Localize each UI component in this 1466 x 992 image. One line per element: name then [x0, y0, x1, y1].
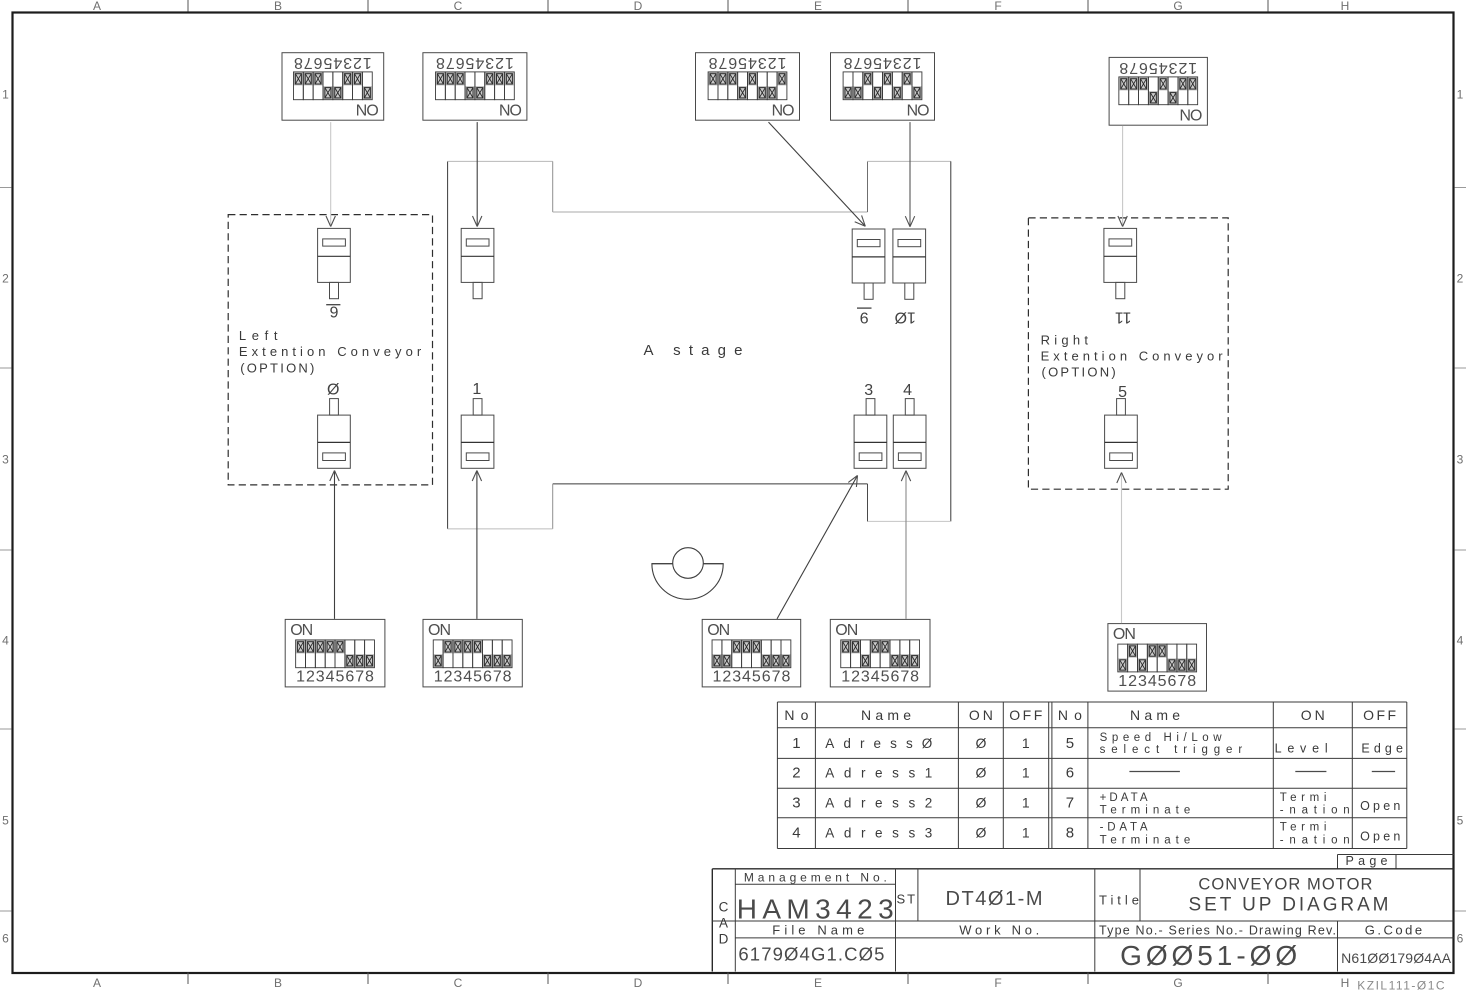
svg-text:2: 2: [2, 272, 9, 286]
label motor 6 (rotated, underlined): [326, 302, 340, 319]
svg-text:8: 8: [843, 54, 852, 71]
dip switch block for motor 0: [285, 619, 385, 687]
svg-text:2: 2: [1128, 673, 1137, 690]
svg-text:4: 4: [1148, 673, 1157, 690]
svg-text:ON: ON: [835, 622, 858, 639]
svg-text:3: 3: [864, 382, 873, 399]
svg-text:6: 6: [2, 932, 9, 946]
svg-text:6: 6: [483, 669, 492, 686]
dip switch block for motor 3: [702, 619, 801, 687]
svg-text:5: 5: [336, 669, 345, 686]
svg-text:2: 2: [851, 669, 860, 686]
svg-text:Title: Title: [1099, 893, 1139, 908]
svg-text:N61ØØ179Ø4AA: N61ØØ179Ø4AA: [1341, 950, 1452, 966]
dip switch block for motor 4: [830, 619, 930, 687]
svg-text:5: 5: [323, 54, 332, 71]
svg-text:H: H: [1341, 976, 1350, 990]
svg-text:1: 1: [363, 54, 372, 71]
svg-text:6: 6: [1457, 932, 1464, 946]
svg-text:GØØ51-ØØ: GØØ51-ØØ: [1120, 940, 1297, 971]
svg-text:3: 3: [2, 453, 9, 467]
svg-text:Ø: Ø: [975, 735, 986, 751]
dip switch settings table: [777, 702, 1406, 849]
svg-text:OFF: OFF: [1009, 707, 1042, 723]
svg-text:ON: ON: [428, 622, 451, 639]
svg-text:3: 3: [893, 54, 902, 71]
dip switch block for motor 9 (rotated 180): [696, 53, 800, 121]
title block: ST / DT401-M: [897, 888, 1043, 910]
Right extension conveyor option box (dashed): [1028, 218, 1228, 489]
svg-text:G: G: [1173, 976, 1182, 990]
title block: [712, 869, 1454, 972]
svg-text:D: D: [634, 0, 643, 13]
motor M9 (A stage, top right): [852, 229, 885, 299]
svg-text:D: D: [634, 976, 643, 990]
svg-text:8: 8: [708, 54, 717, 71]
A stage board outline: [448, 161, 951, 529]
svg-text:1: 1: [505, 54, 514, 71]
svg-text:3: 3: [861, 669, 870, 686]
svg-text:1: 1: [792, 735, 800, 752]
motor M6 (left extension, top): [318, 228, 351, 298]
svg-text:7: 7: [446, 54, 455, 71]
svg-text:Terminate: Terminate: [1100, 835, 1191, 847]
svg-text:(OPTION): (OPTION): [240, 361, 314, 376]
svg-text:2: 2: [792, 765, 800, 782]
svg-text:7: 7: [718, 54, 727, 71]
dip switch block for motor 1: [423, 619, 522, 687]
svg-text:KZIL111-Ø1C: KZIL111-Ø1C: [1357, 979, 1445, 992]
wire: dip sw to motor 4: [901, 471, 910, 619]
svg-text:3: 3: [485, 54, 494, 71]
svg-text:4: 4: [333, 54, 342, 71]
svg-text:8: 8: [436, 54, 445, 71]
svg-text:4: 4: [2, 634, 9, 648]
svg-text:4: 4: [883, 54, 892, 71]
svg-text:6: 6: [1066, 765, 1074, 782]
svg-text:ON: ON: [707, 622, 730, 639]
title block: type/series/drawing: [1099, 924, 1336, 972]
svg-text:4: 4: [742, 669, 751, 686]
svg-text:ON: ON: [499, 101, 522, 118]
wire: dip sw to motor 11: [1118, 126, 1127, 227]
svg-text:1: 1: [1457, 88, 1464, 102]
svg-text:8: 8: [1066, 825, 1074, 842]
page box: [1338, 854, 1454, 869]
motor M10 (A stage, top right): [893, 229, 926, 299]
svg-text:4: 4: [1457, 634, 1464, 648]
svg-text:Ø: Ø: [975, 794, 986, 810]
svg-text:6: 6: [1168, 673, 1177, 690]
svg-text:6: 6: [890, 669, 899, 686]
svg-text:Terminate: Terminate: [1100, 805, 1191, 817]
svg-text:4: 4: [748, 54, 757, 71]
dip switch block for motor 5: [1108, 624, 1207, 692]
svg-text:Ø: Ø: [975, 765, 986, 781]
svg-text:1: 1: [1188, 59, 1197, 76]
svg-text:ON: ON: [290, 622, 313, 639]
svg-text:7: 7: [355, 669, 364, 686]
svg-text:-DATA: -DATA: [1100, 822, 1148, 834]
svg-text:7: 7: [304, 54, 313, 71]
svg-text:6: 6: [314, 54, 323, 71]
svg-text:4: 4: [463, 669, 472, 686]
wire: dip sw to motor 0: [330, 471, 339, 619]
svg-text:5: 5: [1457, 814, 1464, 828]
svg-text:2: 2: [495, 54, 504, 71]
title block: CAD column: [719, 900, 729, 947]
svg-text:File Name: File Name: [772, 922, 864, 937]
svg-text:4: 4: [792, 825, 800, 842]
svg-text:1: 1: [1022, 765, 1030, 781]
svg-text:Work No.: Work No.: [959, 922, 1039, 937]
svg-text:4: 4: [326, 669, 335, 686]
wire: dip sw to motor 6: [326, 122, 335, 226]
svg-text:2: 2: [903, 54, 912, 71]
svg-text:1: 1: [472, 381, 481, 398]
svg-text:CONVEYOR MOTOR: CONVEYOR MOTOR: [1198, 876, 1372, 894]
svg-text:Type No.- Series No.- Drawing: Type No.- Series No.- Drawing Rev.: [1099, 924, 1336, 938]
svg-text:(OPTION): (OPTION): [1042, 365, 1116, 380]
svg-text:3: 3: [1457, 453, 1464, 467]
svg-text:7: 7: [493, 669, 502, 686]
title block: title: [1099, 876, 1389, 916]
svg-text:5: 5: [738, 54, 747, 71]
svg-text:2: 2: [768, 54, 777, 71]
dip switch block for motor 10 (rotated 180): [831, 53, 935, 121]
svg-text:E: E: [814, 976, 822, 990]
wire: dip sw to motor 1: [472, 471, 481, 619]
svg-text:4: 4: [871, 669, 880, 686]
dip switch block for motor 7 (rotated 180): [423, 53, 527, 121]
svg-text:G: G: [1173, 0, 1182, 13]
motor M0 (left extension, bottom): [318, 399, 351, 469]
svg-text:1: 1: [296, 669, 305, 686]
svg-text:Ø: Ø: [327, 382, 339, 399]
svg-text:E: E: [814, 0, 822, 13]
title block: management no: [737, 871, 894, 925]
svg-text:3: 3: [1138, 673, 1147, 690]
svg-text:ON: ON: [1113, 626, 1136, 643]
svg-text:5: 5: [473, 669, 482, 686]
svg-text:4: 4: [1159, 59, 1168, 76]
svg-text:3: 3: [343, 54, 352, 71]
svg-text:3: 3: [732, 669, 741, 686]
wire: dip sw to motor 9 (diagonal): [769, 122, 866, 226]
svg-text:2: 2: [1457, 272, 1464, 286]
svg-text:7: 7: [1177, 673, 1186, 690]
Left extension conveyor option box (dashed): [228, 215, 432, 485]
svg-text:A: A: [93, 0, 101, 13]
motor M3 (A stage, bottom right): [854, 399, 887, 469]
svg-text:6: 6: [1139, 59, 1148, 76]
svg-text:8: 8: [365, 669, 374, 686]
svg-text:7: 7: [853, 54, 862, 71]
svg-text:Ø: Ø: [975, 825, 986, 841]
svg-text:C: C: [719, 900, 729, 915]
svg-text:8: 8: [1119, 59, 1128, 76]
dip switch block for motor 11 (rotated 180): [1109, 57, 1207, 125]
svg-text:1: 1: [912, 54, 921, 71]
svg-text:6: 6: [345, 669, 354, 686]
svg-text:8: 8: [781, 669, 790, 686]
svg-text:11: 11: [1115, 309, 1132, 326]
svg-text:2: 2: [722, 669, 731, 686]
svg-text:8: 8: [1187, 673, 1196, 690]
svg-text:2: 2: [306, 669, 315, 686]
svg-text:1: 1: [713, 669, 722, 686]
svg-text:B: B: [274, 976, 282, 990]
svg-text:8: 8: [294, 54, 303, 71]
svg-text:5: 5: [1066, 735, 1074, 752]
svg-text:3: 3: [758, 54, 767, 71]
svg-text:5: 5: [2, 814, 9, 828]
wire: dip sw to motor 5: [1117, 473, 1126, 624]
svg-text:1: 1: [1022, 735, 1030, 751]
motor M4 (A stage, bottom right): [893, 399, 926, 469]
svg-text:3: 3: [453, 669, 462, 686]
svg-text:2: 2: [1178, 59, 1187, 76]
svg-text:3: 3: [316, 669, 325, 686]
svg-text:1: 1: [777, 54, 786, 71]
svg-text:2: 2: [444, 669, 453, 686]
svg-text:5: 5: [752, 669, 761, 686]
svg-text:6: 6: [762, 669, 771, 686]
svg-text:C: C: [454, 0, 463, 13]
svg-text:7: 7: [772, 669, 781, 686]
wire: dip sw to motor 3 (diagonal): [777, 476, 858, 619]
motor M1 (A stage, bottom left): [461, 399, 494, 469]
motor M5 (right extension, bottom): [1105, 399, 1138, 469]
svg-text:ON: ON: [1179, 106, 1202, 123]
svg-text:1: 1: [434, 669, 443, 686]
svg-text:5: 5: [1118, 384, 1127, 401]
svg-text:3: 3: [1168, 59, 1177, 76]
title block: file name: [738, 922, 884, 964]
svg-text:1: 1: [1022, 825, 1030, 841]
svg-text:OFF: OFF: [1363, 707, 1396, 723]
motor M7 (A stage, top left): [461, 228, 494, 298]
svg-text:C: C: [454, 976, 463, 990]
title block: g.code: [1341, 922, 1452, 966]
svg-text:6: 6: [456, 54, 465, 71]
svg-text:5: 5: [873, 54, 882, 71]
svg-text:5: 5: [1149, 59, 1158, 76]
svg-text:A: A: [93, 976, 101, 990]
svg-text:9: 9: [860, 309, 869, 326]
svg-text:ON: ON: [907, 101, 930, 118]
svg-text:3: 3: [792, 794, 800, 811]
svg-text:5: 5: [1158, 673, 1167, 690]
svg-text:ON: ON: [772, 101, 795, 118]
svg-text:F: F: [994, 976, 1001, 990]
wire: dip sw to motor 10: [905, 122, 914, 227]
motor M11 (right extension, top): [1104, 228, 1137, 298]
svg-text:7: 7: [900, 669, 909, 686]
svg-text:7: 7: [1129, 59, 1138, 76]
svg-text:6: 6: [863, 54, 872, 71]
svg-text:1: 1: [841, 669, 850, 686]
svg-text:H: H: [1341, 0, 1350, 13]
svg-text:6179Ø4G1.CØ5: 6179Ø4G1.CØ5: [738, 944, 884, 965]
svg-text:1: 1: [1022, 794, 1030, 810]
label motor 0: [327, 382, 339, 399]
svg-text:6: 6: [728, 54, 737, 71]
svg-text:F: F: [994, 0, 1001, 13]
rotary table origin symbol: [652, 548, 723, 600]
svg-text:B: B: [274, 0, 282, 13]
wire: dip sw to motor 7: [473, 122, 482, 226]
svg-text:4: 4: [903, 382, 912, 399]
svg-text:4: 4: [475, 54, 484, 71]
svg-text:A: A: [719, 916, 728, 931]
svg-text:8: 8: [503, 669, 512, 686]
svg-text:7: 7: [1066, 794, 1074, 811]
dip switch block for motor 6 (rotated 180): [282, 53, 384, 121]
svg-text:2: 2: [353, 54, 362, 71]
svg-text:5: 5: [881, 669, 890, 686]
svg-text:1: 1: [1118, 673, 1127, 690]
svg-text:5: 5: [465, 54, 474, 71]
svg-text:8: 8: [910, 669, 919, 686]
svg-text:1Ø: 1Ø: [895, 309, 916, 326]
svg-text:ON: ON: [356, 101, 379, 118]
label motor 9 (rotated, underlined): [857, 308, 872, 325]
svg-text:D: D: [719, 932, 729, 947]
svg-text:1: 1: [2, 88, 9, 102]
